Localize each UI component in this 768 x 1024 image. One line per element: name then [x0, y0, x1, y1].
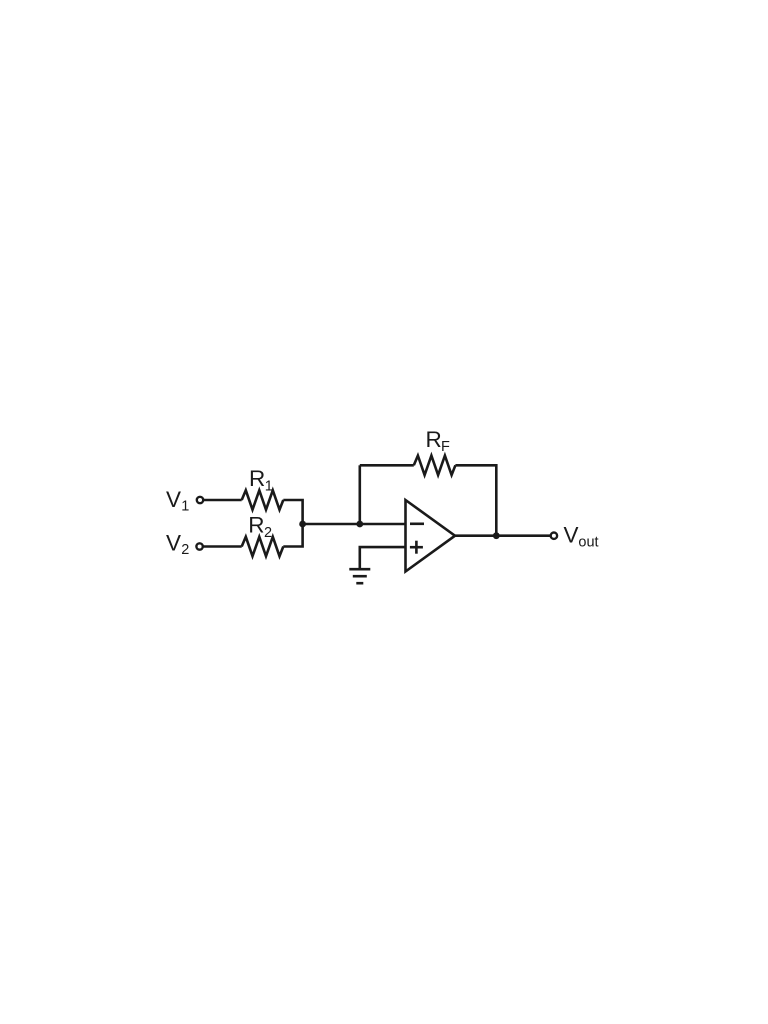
- svg-text:V: V: [166, 487, 181, 512]
- terminal Vout: [551, 533, 557, 539]
- terminal V2: [196, 543, 202, 549]
- svg-text:R: R: [426, 427, 442, 452]
- resistor R2: [242, 537, 284, 556]
- svg-text:V: V: [564, 522, 579, 547]
- ground: [349, 569, 370, 583]
- resistor R1: [242, 490, 284, 509]
- label RF: [426, 427, 451, 455]
- label R1: [249, 466, 273, 495]
- svg-text:1: 1: [265, 478, 273, 494]
- node feedback tap: [356, 521, 363, 528]
- svg-text:R: R: [249, 466, 265, 491]
- wire V1 to R1: [203, 499, 241, 502]
- op-amp inverting marker: [410, 522, 424, 525]
- wire non-inverting input to ground: [360, 547, 406, 569]
- op-amp non-inverting marker: [410, 541, 423, 554]
- wire RF to output node: [455, 465, 496, 535]
- wire junction to op-amp inverting input: [303, 523, 406, 526]
- label Vout: [564, 522, 599, 550]
- label V2: [166, 530, 189, 557]
- terminal V1: [197, 497, 203, 503]
- wire R1 to junction: [283, 500, 302, 524]
- label R2: [248, 513, 272, 541]
- resistor RF: [414, 456, 456, 475]
- svg-text:2: 2: [264, 525, 272, 541]
- node output: [493, 532, 500, 539]
- label V1: [166, 487, 189, 515]
- op-amp U1: [406, 500, 456, 572]
- svg-text:out: out: [578, 535, 598, 551]
- svg-text:R: R: [248, 513, 264, 538]
- wire feedback tap up: [358, 465, 361, 524]
- wire feedback top left to RF: [360, 464, 414, 467]
- wire V2 to R2: [203, 545, 242, 548]
- svg-text:F: F: [441, 439, 450, 455]
- wire R2 to junction: [283, 524, 302, 547]
- svg-text:1: 1: [181, 498, 189, 514]
- svg-text:V: V: [166, 530, 181, 555]
- node summing junction: [299, 521, 306, 528]
- svg-text:2: 2: [181, 542, 189, 558]
- wire op-amp output: [455, 534, 551, 537]
